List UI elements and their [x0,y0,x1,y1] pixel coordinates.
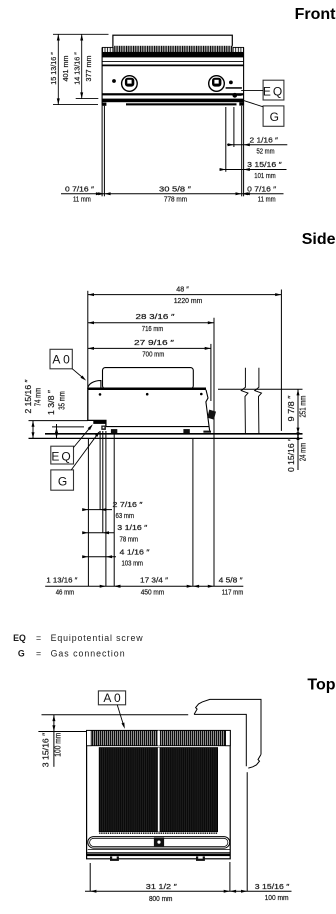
svg-text:0 15/16 ″: 0 15/16 ″ [286,438,296,472]
svg-text:Side: Side [302,231,336,248]
svg-text:35 mm: 35 mm [57,391,67,410]
svg-text:3 15/16 ″: 3 15/16 ″ [41,733,51,768]
front: right end cap [233,47,243,52]
top: center connector [154,838,164,847]
side: 74mm dim line [32,421,34,439]
front: bracket stub near EQ [226,87,242,89]
svg-text:3 1/16 ″: 3 1/16 ″ [117,523,148,532]
side: front foot [183,429,189,434]
svg-text:63 mm: 63 mm [116,511,135,520]
svg-text:46 mm: 46 mm [56,587,75,596]
svg-text:2 1/16 ″: 2 1/16 ″ [250,135,279,144]
front: 401mm bottom extension [53,104,98,106]
top: rear extension line [42,714,189,716]
front: 101mm dim [220,169,287,171]
side: 251mm dim [297,389,299,434]
front: control band dark lines [102,93,244,95]
side: break lines [241,368,248,434]
top: A O label box [98,691,125,705]
side: left extension lines [29,421,88,439]
front: knob 2 [209,76,225,92]
top: front bumper rail [88,837,230,849]
side: 716 extension [213,318,215,586]
svg-text:3 15/16 ″: 3 15/16 ″ [247,160,282,169]
svg-text:450 mm: 450 mm [141,587,165,596]
top: left foot [110,856,119,861]
svg-text:2 7/16 ″: 2 7/16 ″ [113,500,144,509]
svg-text:G: G [270,110,279,124]
svg-text:103 mm: 103 mm [122,559,144,568]
svg-text:G: G [18,648,25,658]
top: gas pipe outer wall [194,699,261,754]
svg-text:1 13/16 ″: 1 13/16 ″ [46,576,77,585]
svg-text:15 13/16 ″: 15 13/16 ″ [49,52,58,85]
front: recessed kick bar [126,103,237,105]
side: 700 dim line [88,347,211,349]
top: right foot [196,856,205,861]
svg-text:101 mm: 101 mm [254,171,275,180]
front: solid dark band under teeth [102,52,244,58]
svg-text:17 3/4 ″: 17 3/4 ″ [140,576,169,585]
svg-text:14 13/16 ″: 14 13/16 ″ [72,52,81,85]
front: EQ label box [263,80,284,100]
svg-text:700 mm: 700 mm [142,350,164,359]
side: 24mm dim [297,438,299,470]
side: EQ screw bar [93,421,106,424]
front: body side edges [101,47,103,105]
svg-text:EQ: EQ [13,633,26,643]
svg-text:24 mm: 24 mm [297,443,307,462]
svg-text:251 mm: 251 mm [297,396,307,418]
front: left foot [102,103,106,106]
side: 63mm dim [87,509,113,511]
svg-text:11 mm: 11 mm [258,195,276,204]
svg-text:30 5/8 ″: 30 5/8 ″ [159,185,192,194]
side: rear arc bump [88,381,101,389]
front: left end cap [103,47,113,52]
top: grill middle split [158,748,160,832]
svg-text:Top: Top [307,677,335,694]
top: bottom dim [85,862,292,891]
top: gas pipe break end [248,754,261,768]
svg-text:377 mm: 377 mm [84,56,93,82]
svg-text:52 mm: 52 mm [257,146,275,155]
front: body horizontal lines [102,60,244,62]
svg-text:0 7/16 ″: 0 7/16 ″ [65,185,95,194]
side: G label box [51,470,74,490]
svg-text:1220 mm: 1220 mm [174,296,203,305]
svg-text:74 mm: 74 mm [32,388,42,407]
side: 716 dim line [88,322,214,324]
side: 103mm dim [87,556,117,558]
svg-text:A 0: A 0 [103,691,121,705]
front: right side extension lines [102,106,244,197]
svg-text:Gas connection: Gas connection [51,648,125,658]
front: G leader [244,101,263,107]
side: counter top lines [45,433,303,435]
side: 1220 right extension [280,290,282,431]
svg-text:100 mm: 100 mm [265,893,289,902]
front: equipotential screw [232,93,237,98]
svg-text:78 mm: 78 mm [120,534,139,543]
top: A O leader [117,705,124,727]
svg-text:4 5/8 ″: 4 5/8 ″ [219,576,244,585]
svg-text:27 9/16 ″: 27 9/16 ″ [134,338,175,347]
svg-text:401 mm: 401 mm [61,56,70,82]
side: 35mm dim line [56,424,58,438]
svg-text:31 1/2 ″: 31 1/2 ″ [146,882,178,891]
front: 377mm dimension line [81,34,83,98]
side: 1220 dim line [88,294,282,296]
side: griddle plate profile [103,368,194,389]
front: 52mm dim [227,144,287,146]
side: gas connection square [101,426,106,430]
front: bottom dim line [61,193,284,195]
svg-text:EQ: EQ [263,84,284,98]
front: knob 1 [122,76,138,92]
svg-text:G: G [58,475,67,489]
top: front edge lines [88,849,230,851]
svg-text:0 7/16 ″: 0 7/16 ″ [247,185,277,194]
front: left dim texts (rotated) [49,52,93,85]
side: front lower foot [203,431,211,433]
svg-text:EQ: EQ [51,449,72,463]
side: back extension line [87,291,89,390]
front: top extension line [53,33,109,35]
svg-text:=: = [36,648,41,658]
svg-text:A 0: A 0 [52,353,70,367]
svg-text:Equipotential screw: Equipotential screw [51,633,144,643]
svg-text:=: = [36,633,41,643]
svg-text:716 mm: 716 mm [142,324,163,333]
front: griddle plate (upper) [113,35,232,47]
front: pilot lamp left [112,79,116,83]
top: comb row below grill [99,832,217,834]
svg-text:1 3/8 ″: 1 3/8 ″ [46,390,56,415]
svg-text:778 mm: 778 mm [164,195,187,204]
side: rear foot [111,429,117,434]
svg-text:Front: Front [295,6,336,23]
side: panel-top extension line to right [218,388,303,390]
svg-text:28 3/16 ″: 28 3/16 ″ [136,312,176,321]
svg-text:100 mm: 100 mm [53,733,63,757]
side: G leader [71,432,99,470]
top: rear ribbed strip [87,731,231,746]
top: grill area [99,748,217,832]
side: EQ leader [74,426,92,448]
front: right foot [239,102,243,105]
svg-text:48 ″: 48 ″ [176,285,189,294]
side: screws on body [99,393,102,396]
side: A O leader [72,369,84,379]
svg-text:4 1/16 ″: 4 1/16 ″ [120,547,151,556]
side: body outline [88,390,106,427]
front: 377mm bottom extension [76,98,99,100]
front: grill teeth row [113,46,233,52]
front: EQ leader [241,90,263,92]
svg-text:800 mm: 800 mm [149,894,173,903]
svg-text:3 15/16 ″: 3 15/16 ″ [255,882,290,891]
svg-text:9 7/8 ″: 9 7/8 ″ [286,396,296,422]
svg-text:11 mm: 11 mm [73,195,91,204]
side: 78mm dim [87,532,115,534]
side: bottom extension lines [88,431,192,586]
side: bottom main dim line [45,585,243,587]
top: machine outline [87,731,231,859]
front: G label box [263,106,284,126]
side: body bottom line [106,426,210,428]
top: left 100mm dim [38,731,86,733]
side: EQ label box [51,446,74,464]
svg-text:117 mm: 117 mm [222,587,244,596]
top: gas pipe inner wall [194,714,246,766]
side: 700 extension [210,344,212,401]
front: 401mm dimension line [57,34,59,104]
side: A O label box [50,349,72,369]
side: knob on slanted panel [207,410,216,420]
top: pipe extension to dim [246,772,248,891]
front: pilot lamp right [229,81,233,85]
side: body top thick band [87,388,206,391]
